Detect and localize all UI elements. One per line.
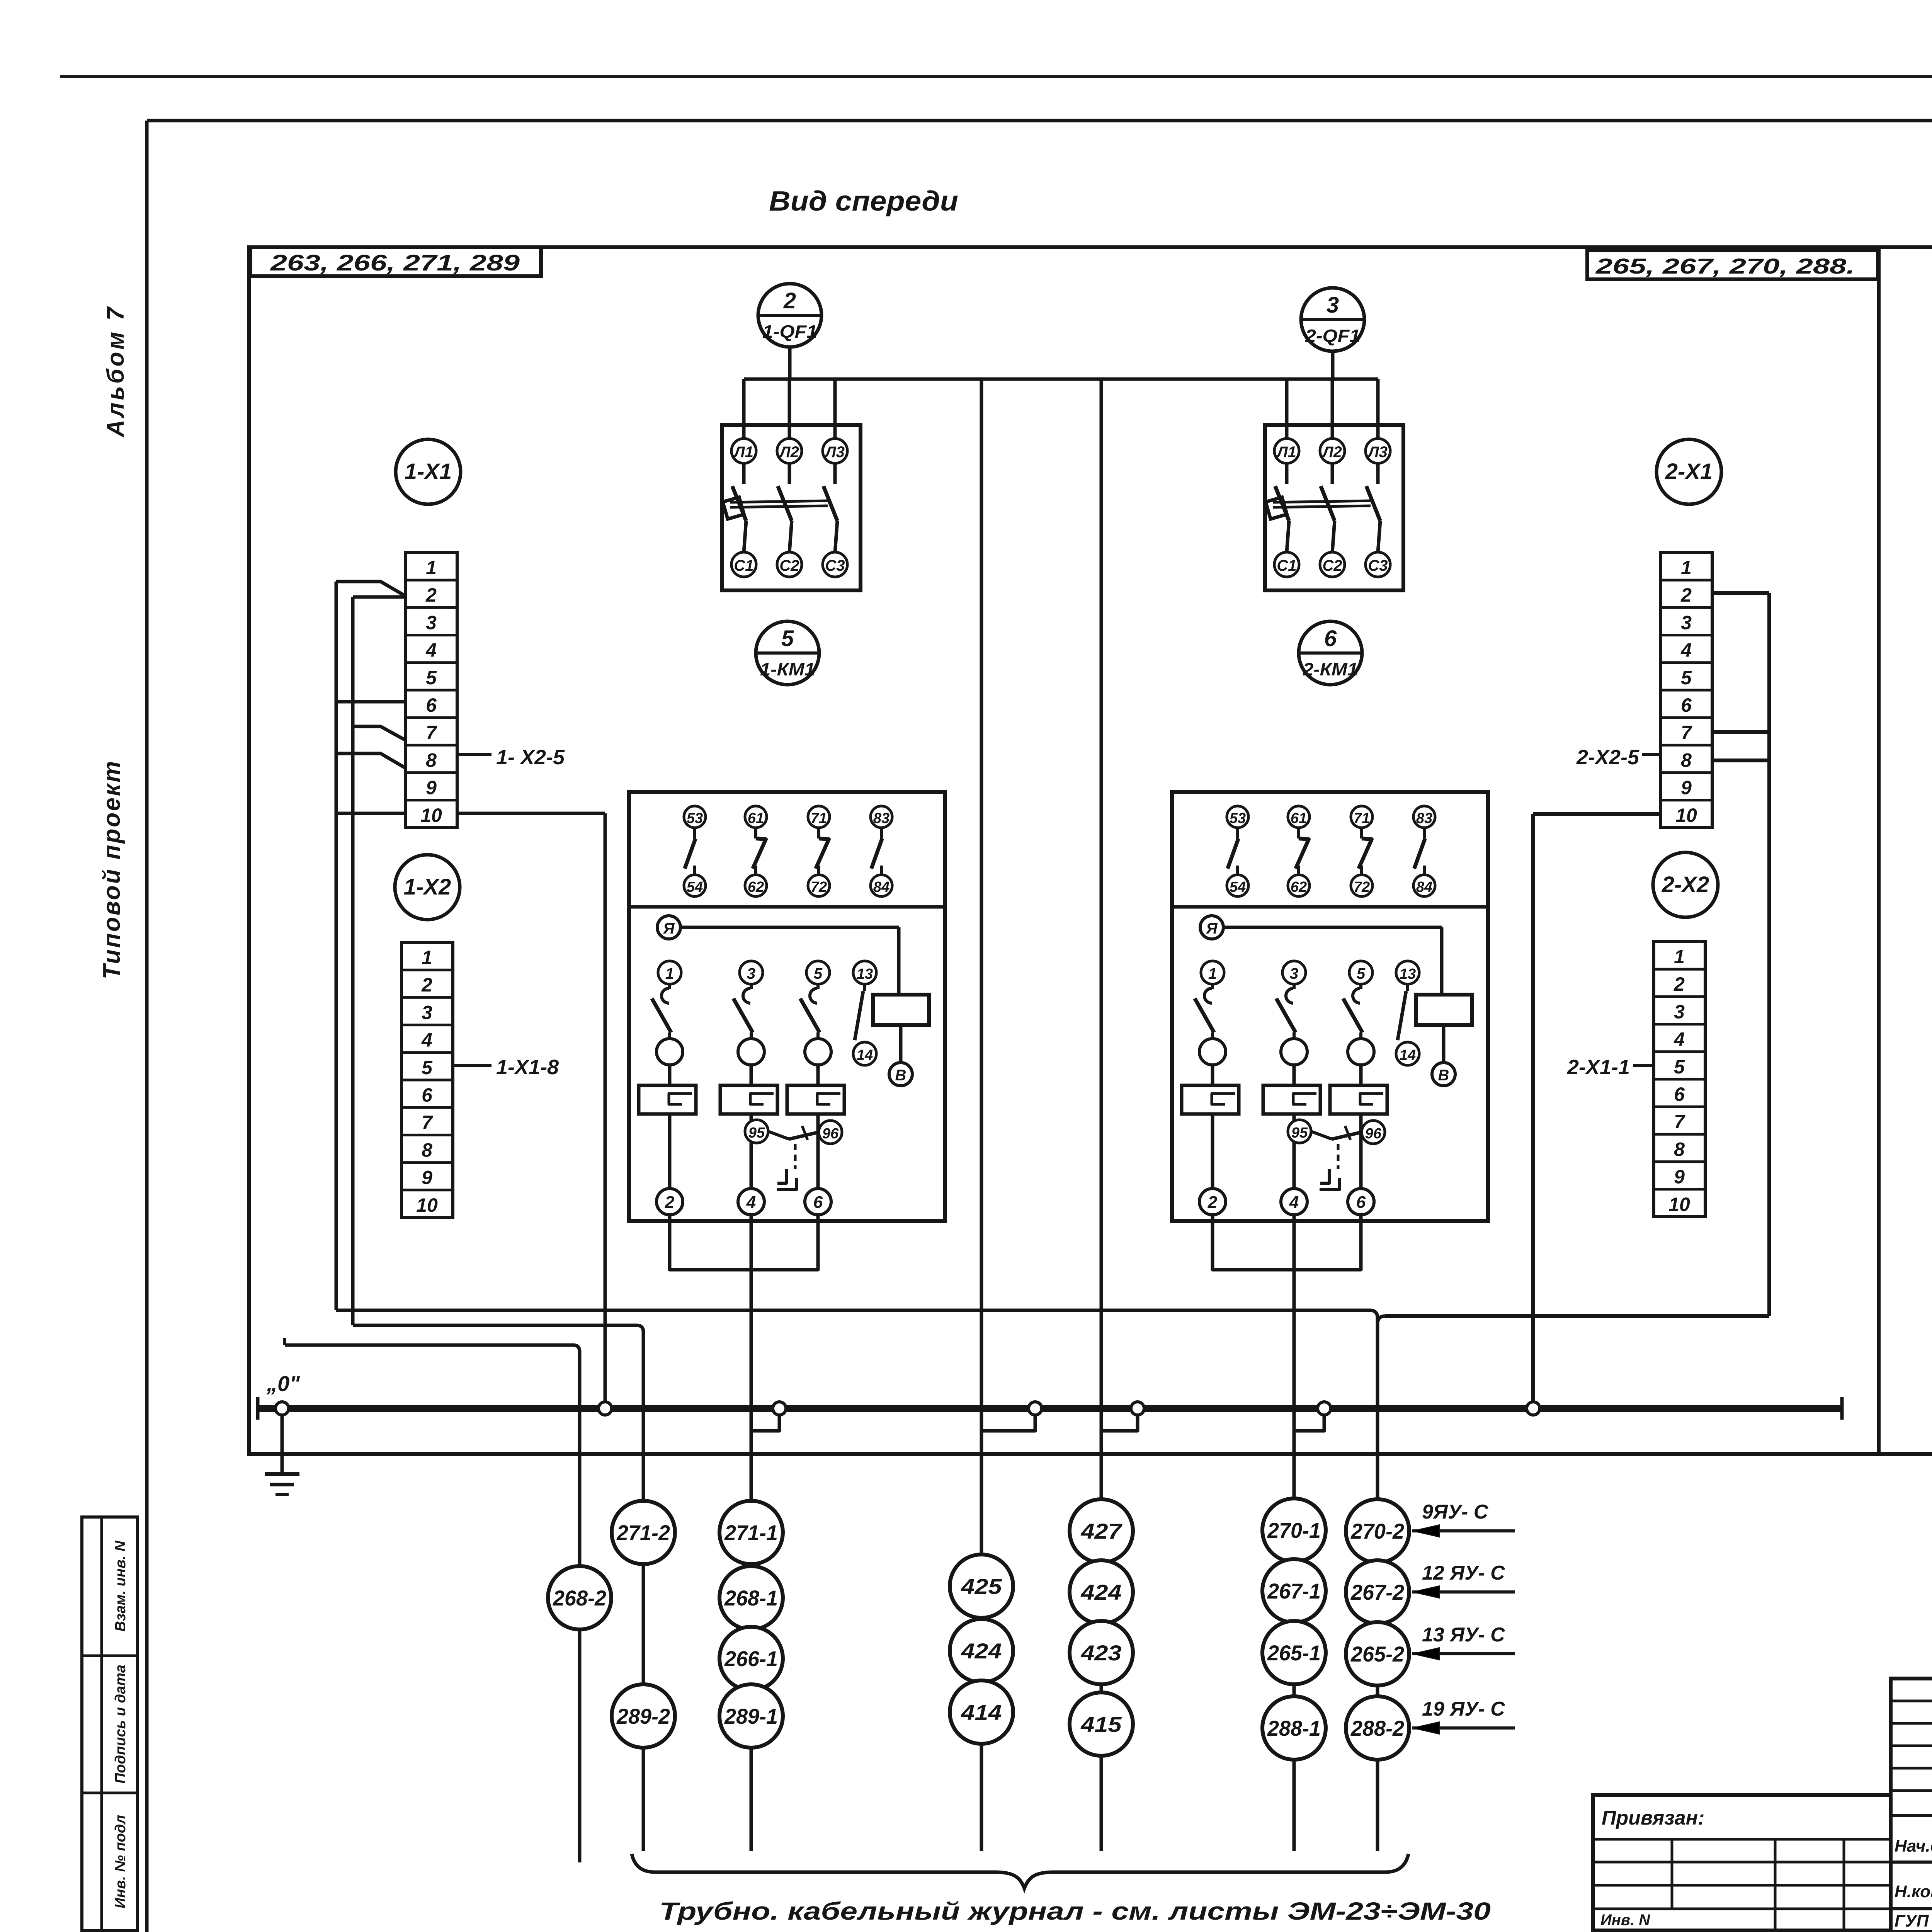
svg-text:1: 1: [1681, 557, 1692, 578]
svg-text:271-1: 271-1: [724, 1520, 778, 1545]
svg-text:266-1: 266-1: [724, 1646, 778, 1671]
svg-text:10: 10: [1668, 1194, 1690, 1215]
svg-text:Инв. № подл: Инв. № подл: [112, 1815, 129, 1908]
svg-text:Л3: Л3: [1367, 444, 1388, 461]
svg-text:5: 5: [814, 965, 823, 982]
svg-text:83: 83: [873, 810, 889, 827]
svg-text:62: 62: [1291, 879, 1307, 895]
svg-text:415: 415: [1080, 1712, 1122, 1736]
svg-text:Л2: Л2: [1321, 444, 1342, 461]
svg-text:265-2: 265-2: [1350, 1642, 1404, 1666]
svg-text:2-X2-5: 2-X2-5: [1576, 746, 1639, 769]
svg-text:2-X1-1: 2-X1-1: [1567, 1056, 1630, 1079]
svg-text:424: 424: [961, 1639, 1002, 1663]
svg-text:270-1: 270-1: [1267, 1518, 1321, 1543]
svg-text:53: 53: [687, 810, 703, 827]
svg-text:Л2: Л2: [779, 444, 799, 461]
svg-text:С3: С3: [1368, 557, 1388, 574]
svg-text:268-1: 268-1: [724, 1586, 778, 1610]
svg-text:Я: Я: [1206, 920, 1218, 937]
svg-text:3: 3: [426, 612, 437, 633]
svg-text:2-КМ1: 2-КМ1: [1303, 659, 1358, 679]
svg-text:5: 5: [426, 667, 437, 689]
svg-text:84: 84: [873, 879, 889, 895]
svg-text:Инв. N: Инв. N: [1600, 1912, 1650, 1929]
svg-text:Типовой проект: Типовой проект: [99, 760, 125, 980]
svg-text:4: 4: [1673, 1029, 1685, 1050]
svg-text:270-2: 270-2: [1350, 1519, 1404, 1543]
svg-text:8: 8: [422, 1139, 432, 1161]
svg-text:2: 2: [1673, 973, 1685, 995]
svg-text:1- X2-5: 1- X2-5: [496, 746, 565, 769]
svg-text:5: 5: [422, 1057, 433, 1078]
svg-text:14: 14: [857, 1047, 873, 1063]
svg-text:3: 3: [1674, 1001, 1685, 1022]
svg-text:9ЯУ- С: 9ЯУ- С: [1422, 1501, 1489, 1523]
svg-text:10: 10: [420, 804, 442, 826]
svg-text:Подпись и дата: Подпись и дата: [112, 1665, 129, 1784]
svg-text:54: 54: [687, 879, 703, 895]
svg-text:10: 10: [1675, 804, 1697, 826]
svg-text:1-QF1: 1-QF1: [762, 321, 817, 342]
svg-text:61: 61: [748, 810, 764, 827]
svg-text:4: 4: [421, 1029, 432, 1051]
svg-text:6: 6: [426, 694, 437, 716]
svg-text:72: 72: [1354, 879, 1370, 895]
svg-text:13: 13: [857, 966, 873, 982]
svg-text:1: 1: [665, 965, 674, 982]
svg-text:С2: С2: [779, 557, 799, 574]
svg-text:6: 6: [813, 1193, 823, 1212]
svg-text:2: 2: [1680, 584, 1692, 606]
svg-text:6: 6: [422, 1084, 433, 1106]
svg-text:Н.контр.: Н.контр.: [1895, 1882, 1932, 1901]
svg-text:1: 1: [1674, 946, 1685, 968]
svg-text:Трубно. кабельный журнал - см: Трубно. кабельный журнал - см. листы ЭМ-…: [659, 1897, 1491, 1925]
svg-text:84: 84: [1416, 879, 1432, 895]
svg-text:3: 3: [1681, 612, 1692, 633]
svg-text:288-1: 288-1: [1267, 1716, 1321, 1740]
svg-text:423: 423: [1080, 1641, 1121, 1665]
svg-text:Л1: Л1: [1276, 444, 1296, 461]
svg-text:53: 53: [1230, 810, 1246, 827]
svg-text:4: 4: [425, 639, 437, 661]
svg-text:2: 2: [783, 288, 796, 313]
svg-text:19 ЯУ- С: 19 ЯУ- С: [1422, 1698, 1505, 1720]
svg-text:9: 9: [422, 1167, 432, 1189]
svg-text:13 ЯУ- С: 13 ЯУ- С: [1422, 1624, 1505, 1646]
svg-text:Нач.отд.: Нач.отд.: [1895, 1837, 1932, 1855]
svg-text:2-QF1: 2-QF1: [1305, 326, 1360, 346]
svg-text:96: 96: [1365, 1126, 1382, 1142]
svg-text:5: 5: [1674, 1056, 1685, 1078]
svg-text:3: 3: [422, 1002, 432, 1023]
svg-text:13: 13: [1400, 966, 1416, 982]
svg-text:1: 1: [422, 947, 432, 968]
svg-text:4: 4: [1680, 639, 1692, 661]
svg-text:268-2: 268-2: [553, 1586, 606, 1610]
svg-text:14: 14: [1400, 1047, 1416, 1063]
svg-text:С1: С1: [1277, 557, 1296, 574]
svg-text:5: 5: [1357, 965, 1366, 982]
svg-text:2: 2: [665, 1193, 675, 1212]
svg-text:427: 427: [1080, 1519, 1122, 1543]
svg-text:61: 61: [1291, 810, 1307, 827]
svg-text:271-2: 271-2: [616, 1520, 670, 1545]
svg-text:72: 72: [811, 879, 827, 895]
svg-text:6: 6: [1681, 694, 1692, 716]
svg-text:265, 267, 270, 288.: 265, 267, 270, 288.: [1595, 254, 1855, 278]
svg-text:Альбом 7: Альбом 7: [102, 305, 129, 438]
svg-text:С3: С3: [825, 557, 845, 574]
svg-text:267-1: 267-1: [1267, 1579, 1321, 1603]
svg-text:425: 425: [961, 1574, 1002, 1599]
svg-text:4: 4: [1289, 1193, 1299, 1212]
svg-text:95: 95: [1291, 1125, 1308, 1141]
svg-text:54: 54: [1230, 879, 1246, 895]
svg-text:62: 62: [748, 879, 764, 895]
svg-text:9: 9: [1674, 1166, 1685, 1188]
svg-text:414: 414: [961, 1700, 1002, 1725]
svg-text:7: 7: [1674, 1111, 1685, 1133]
svg-text:1: 1: [426, 557, 437, 578]
svg-text:2-X2: 2-X2: [1662, 872, 1709, 897]
svg-text:2: 2: [1207, 1193, 1218, 1212]
svg-text:3: 3: [1290, 965, 1298, 982]
svg-text:Я: Я: [663, 920, 675, 937]
svg-text:289-1: 289-1: [724, 1704, 778, 1728]
svg-text:1-КМ1: 1-КМ1: [760, 659, 815, 679]
svg-text:9: 9: [426, 777, 437, 799]
svg-text:4: 4: [746, 1193, 756, 1212]
svg-text:2: 2: [421, 974, 432, 996]
svg-text:6: 6: [1674, 1083, 1685, 1105]
svg-text:71: 71: [1354, 810, 1370, 827]
svg-text:С2: С2: [1322, 557, 1342, 574]
svg-text:„0": „0": [266, 1371, 300, 1396]
svg-text:9: 9: [1681, 777, 1692, 799]
svg-text:3: 3: [1327, 293, 1339, 318]
svg-text:6: 6: [1324, 626, 1337, 651]
svg-text:424: 424: [1080, 1580, 1121, 1604]
svg-text:В: В: [895, 1067, 906, 1084]
svg-text:5: 5: [781, 626, 794, 651]
svg-text:95: 95: [748, 1125, 765, 1141]
svg-text:8: 8: [1674, 1138, 1685, 1160]
svg-text:Л3: Л3: [824, 444, 845, 461]
svg-text:288-2: 288-2: [1350, 1716, 1404, 1740]
svg-text:3: 3: [747, 965, 755, 982]
svg-text:ГУП: ГУП: [1895, 1912, 1929, 1930]
svg-text:6: 6: [1356, 1193, 1366, 1212]
svg-text:12 ЯУ- С: 12 ЯУ- С: [1422, 1562, 1505, 1584]
svg-text:7: 7: [426, 722, 437, 743]
svg-text:В: В: [1438, 1067, 1449, 1084]
svg-text:7: 7: [422, 1112, 433, 1133]
svg-text:1-X2: 1-X2: [404, 874, 451, 900]
svg-text:8: 8: [426, 749, 437, 771]
svg-text:8: 8: [1681, 749, 1692, 771]
svg-text:2-X1: 2-X1: [1665, 459, 1713, 484]
svg-text:С1: С1: [734, 557, 753, 574]
svg-text:5: 5: [1681, 667, 1692, 689]
svg-text:265-1: 265-1: [1267, 1641, 1321, 1665]
svg-text:263, 266, 271, 289: 263, 266, 271, 289: [270, 250, 520, 276]
svg-text:71: 71: [811, 810, 827, 827]
svg-text:Взам. инв. N: Взам. инв. N: [112, 1540, 129, 1631]
svg-text:289-2: 289-2: [616, 1704, 670, 1728]
svg-text:1-X1: 1-X1: [405, 459, 452, 484]
svg-text:Л1: Л1: [733, 444, 753, 461]
svg-text:96: 96: [822, 1126, 839, 1142]
svg-text:267-2: 267-2: [1350, 1580, 1404, 1604]
svg-text:Вид спереди: Вид спереди: [769, 186, 958, 217]
svg-text:1: 1: [1208, 965, 1217, 982]
svg-text:10: 10: [416, 1194, 438, 1216]
svg-text:Привязан:: Привязан:: [1602, 1807, 1704, 1829]
svg-text:2: 2: [425, 584, 437, 606]
svg-text:83: 83: [1416, 810, 1432, 827]
svg-text:1-X1-8: 1-X1-8: [496, 1056, 559, 1079]
svg-text:7: 7: [1681, 722, 1692, 743]
